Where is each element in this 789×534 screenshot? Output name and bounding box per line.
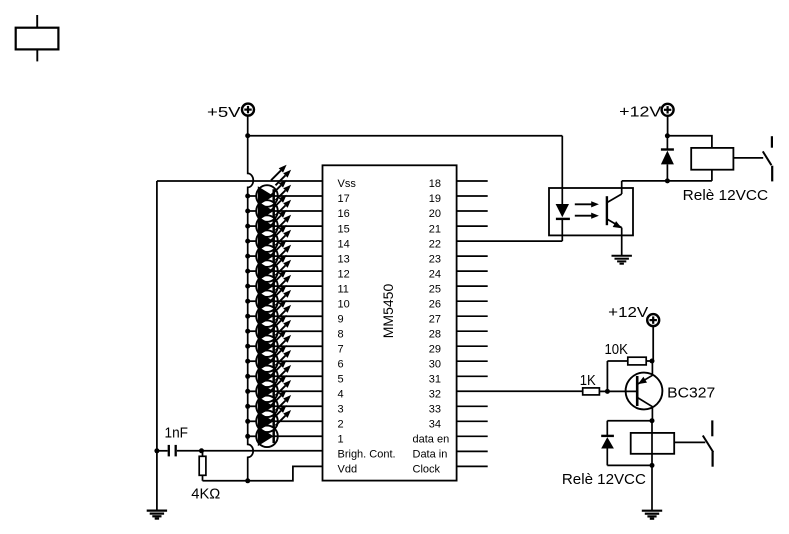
diode D18 (flyback, top relay) (661, 136, 674, 181)
power symbol +12V (bottom) (608, 304, 659, 326)
wire base node to transistor base (607, 390, 638, 392)
optocoupler U2 box (549, 188, 633, 235)
svg-text:BC327: BC327 (667, 385, 715, 401)
junction rail / diode bottom (650, 463, 655, 468)
svg-text:Brigh. Cont.: Brigh. Cont. (338, 449, 396, 461)
svg-text:Vdd: Vdd (338, 464, 358, 476)
svg-text:Data in: Data in (413, 449, 448, 461)
wire pin 22 to optocoupler cathode (457, 240, 563, 242)
resistor R3 1K (583, 388, 608, 395)
svg-text:11: 11 (338, 283, 349, 295)
svg-text:29: 29 (429, 343, 441, 355)
LED D10 (pin 8) (245, 300, 322, 342)
svg-text:Vss: Vss (338, 178, 357, 190)
LED D1 (pin 17) (245, 165, 322, 207)
junction ground rail / 1nF (154, 448, 159, 453)
wire Vss rail (ground) left (157, 180, 323, 182)
svg-text:4KΩ: 4KΩ (191, 487, 220, 503)
svg-text:13: 13 (338, 253, 350, 265)
svg-text:Relè 12VCC: Relè 12VCC (683, 188, 768, 204)
svg-text:1: 1 (338, 434, 344, 446)
svg-text:10K: 10K (605, 342, 629, 358)
optocoupler light arrows (575, 201, 599, 219)
wire pin stub right row 28 (457, 330, 488, 332)
ground (bottom-left) (147, 511, 167, 519)
svg-text:14: 14 (338, 238, 350, 250)
junction +5V / opto feed (245, 133, 250, 138)
junction +12V / relay coil branch (665, 133, 670, 138)
wire pin stub right row 24 (457, 270, 488, 272)
svg-text:+12V: +12V (619, 103, 661, 120)
wire +5V vertical bus (with crossover hops) (248, 115, 254, 480)
svg-text:1nF: 1nF (165, 426, 189, 442)
power symbol +5V (207, 104, 254, 121)
wire pin stub right row 29 (457, 345, 488, 347)
svg-text:4: 4 (338, 389, 344, 401)
svg-text:28: 28 (429, 328, 441, 340)
svg-text:25: 25 (429, 283, 441, 295)
svg-text:18: 18 (429, 178, 441, 190)
svg-text:8: 8 (338, 328, 344, 340)
resistor R2 10K (607, 357, 652, 391)
svg-text:5: 5 (338, 374, 344, 386)
wire pin stub right row 26 (457, 300, 488, 302)
op-amp U1 MM5450 (display driver IC body) (323, 165, 457, 480)
svg-text:34: 34 (429, 419, 441, 431)
wire pin stub right row Data in (457, 450, 488, 452)
switch contact K2 (bottom) (674, 420, 713, 466)
svg-text:22: 22 (429, 238, 441, 250)
wire left vertical ground rail (156, 181, 158, 511)
LED D4 (pin 14) (245, 210, 322, 252)
wire opto collector to relay/diode rail (622, 180, 712, 182)
junction collector / diode (650, 418, 655, 423)
wire pin stub right row 21 (457, 225, 488, 227)
svg-text:3: 3 (338, 404, 344, 416)
LED D15 (pin 3) (245, 375, 322, 417)
svg-text:30: 30 (429, 358, 441, 370)
junction bus / Vdd wire (245, 478, 250, 483)
svg-text:+5V: +5V (207, 104, 241, 121)
switch contact K1 (top) (733, 136, 772, 181)
wire pin stub right row 19 (457, 195, 488, 197)
ground (optocoupler emitter) (612, 256, 632, 264)
relay K2 coil (631, 433, 675, 454)
svg-text:23: 23 (429, 253, 441, 265)
svg-text:33: 33 (429, 404, 441, 416)
wire pin stub right row 30 (457, 360, 488, 362)
svg-text:2: 2 (338, 419, 344, 431)
capacitor C1 1nF (157, 445, 202, 457)
resistor R1 4KOhm (199, 451, 206, 481)
power symbol +12V (top) (619, 103, 673, 120)
svg-text:16: 16 (338, 208, 350, 220)
svg-text:Relè 12VCC: Relè 12VCC (562, 472, 646, 488)
wire pin stub right row 34 (457, 420, 488, 422)
wire 4K bottom to Vdd pin (jog) (203, 466, 323, 480)
svg-text:19: 19 (429, 193, 441, 205)
svg-text:MM5450: MM5450 (380, 284, 396, 339)
svg-text:+12V: +12V (608, 304, 648, 321)
wire pin stub right row 20 (457, 210, 488, 212)
wire pin stub right row 27 (457, 315, 488, 317)
svg-text:31: 31 (429, 374, 441, 386)
svg-text:20: 20 (429, 208, 441, 220)
svg-text:27: 27 (429, 313, 441, 325)
LED D2 (pin 16) (245, 180, 322, 222)
wire +5V to optocoupler anode (248, 135, 563, 137)
junction 1nF / 4K / Brigh.Cont. node (199, 448, 204, 453)
svg-text:21: 21 (429, 223, 441, 235)
LED D5 (pin 13) (245, 225, 322, 267)
wire relay coil bottom (711, 170, 713, 181)
wire pin stub right row 33 (457, 405, 488, 407)
svg-text:9: 9 (338, 313, 344, 325)
wire pin stub right row data en (457, 435, 488, 437)
LED D11 (pin 7) (245, 315, 322, 357)
wire collector node to diode (607, 420, 652, 422)
LED D6 (pin 12) (245, 240, 322, 282)
svg-text:24: 24 (429, 268, 441, 280)
LED D17 (pin 1) (245, 405, 322, 447)
ground (bottom relay) (642, 511, 662, 519)
component box (unconnected symbol, top-left) (16, 15, 59, 61)
wire +12V down to emitter node (652, 326, 654, 361)
svg-text:Clock: Clock (413, 464, 441, 476)
svg-text:10: 10 (338, 298, 350, 310)
wire pin stub right row 31 (457, 375, 488, 377)
wire rail through relay to ground (651, 421, 653, 511)
wire pin stub right row 18 (457, 180, 488, 182)
optocoupler phototransistor (607, 181, 622, 256)
junction +12V / 10K (650, 359, 655, 364)
svg-text:1K: 1K (580, 373, 596, 389)
wire pin 32 to 1K resistor (457, 390, 583, 392)
junction diode / collector wire (665, 178, 670, 183)
transistor Q1 BC327 (PNP) (626, 361, 663, 421)
LED D16 (pin 2) (245, 390, 322, 432)
wire node to Brigh. Cont. pin (202, 450, 323, 452)
wire +12V down (667, 116, 669, 136)
LED D7 (pin 11) (245, 255, 322, 297)
svg-text:7: 7 (338, 343, 344, 355)
wire pin stub right row 23 (457, 255, 488, 257)
relay K1 coil (691, 148, 733, 170)
wire +12V to relay coil top (667, 136, 712, 148)
LED D8 (pin 10) (245, 270, 322, 312)
wire diode bottom to rail (607, 464, 652, 466)
LED D12 (pin 6) (245, 330, 322, 372)
LED D3 (pin 15) (245, 195, 322, 237)
junction base node (605, 389, 610, 394)
svg-text:32: 32 (429, 389, 441, 401)
svg-text:26: 26 (429, 298, 441, 310)
wire pin stub right row Clock (457, 465, 488, 467)
wire pin stub right row 25 (457, 285, 488, 287)
svg-text:17: 17 (338, 193, 350, 205)
LED D13 (pin 5) (245, 345, 322, 387)
optocoupler LED (anode from +5V, cathode to pin 22) (556, 136, 570, 241)
LED D9 (pin 9) (245, 285, 322, 327)
svg-text:6: 6 (338, 358, 344, 370)
svg-text:data en: data en (413, 434, 450, 446)
LED D14 (pin 4) (245, 360, 322, 402)
svg-text:15: 15 (338, 223, 350, 235)
diode D19 (flyback, bottom relay) (601, 421, 614, 466)
svg-text:12: 12 (338, 268, 350, 280)
